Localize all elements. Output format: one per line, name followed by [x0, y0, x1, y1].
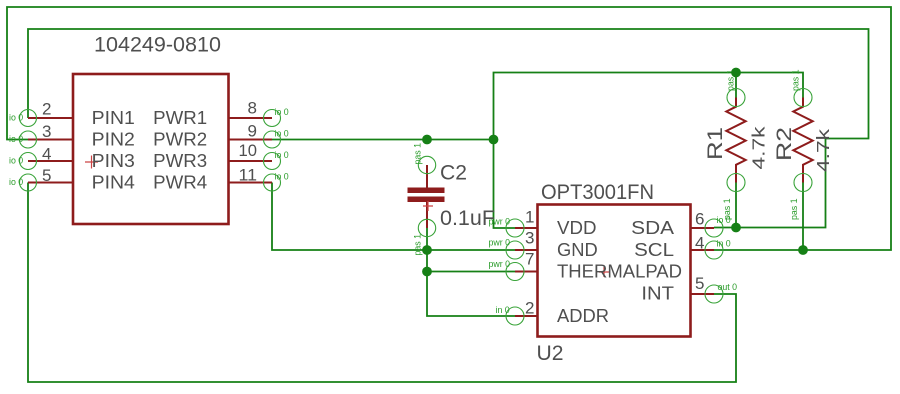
svg-text:io 0: io 0 — [275, 129, 289, 139]
svg-text:pas 1: pas 1 — [789, 198, 799, 220]
svg-text:4.7k: 4.7k — [749, 126, 769, 169]
svg-text:io 0: io 0 — [275, 150, 289, 160]
svg-text:U2: U2 — [537, 342, 564, 365]
svg-text:pwr 0: pwr 0 — [489, 217, 511, 227]
svg-text:2: 2 — [525, 298, 534, 317]
svg-text:8: 8 — [248, 99, 257, 118]
svg-text:io 0: io 0 — [9, 134, 23, 144]
svg-text:pas 1: pas 1 — [722, 198, 732, 220]
svg-text:5: 5 — [42, 166, 51, 185]
svg-text:in 0: in 0 — [717, 239, 731, 249]
svg-text:4: 4 — [695, 233, 704, 252]
svg-text:1: 1 — [525, 208, 534, 227]
svg-text:io 0: io 0 — [275, 172, 289, 182]
svg-text:pas 1: pas 1 — [413, 234, 423, 256]
svg-text:pas 1: pas 1 — [791, 69, 801, 91]
svg-text:PWR4: PWR4 — [153, 173, 207, 193]
svg-text:pwr 0: pwr 0 — [489, 238, 511, 248]
svg-text:10: 10 — [239, 141, 258, 160]
svg-text:pwr 0: pwr 0 — [489, 259, 511, 269]
svg-text:pas 1: pas 1 — [413, 143, 423, 165]
svg-text:7: 7 — [525, 250, 534, 269]
svg-text:C2: C2 — [440, 162, 467, 185]
svg-text:PIN1: PIN1 — [92, 108, 135, 128]
svg-text:SDA: SDA — [631, 218, 674, 238]
svg-text:io 0: io 0 — [9, 156, 23, 166]
svg-text:io 0: io 0 — [9, 113, 23, 123]
svg-text:PIN3: PIN3 — [92, 151, 135, 171]
svg-text:ADDR: ADDR — [557, 306, 609, 326]
svg-text:R2: R2 — [773, 127, 796, 161]
svg-text:PIN4: PIN4 — [92, 173, 135, 193]
svg-text:INT: INT — [641, 284, 674, 304]
svg-text:4.7k: 4.7k — [813, 129, 833, 172]
svg-text:104249-0810: 104249-0810 — [94, 34, 221, 57]
svg-text:9: 9 — [248, 121, 257, 140]
svg-text:PIN2: PIN2 — [92, 130, 135, 150]
svg-text:out 0: out 0 — [718, 282, 738, 292]
svg-text:0.1uF: 0.1uF — [440, 207, 495, 230]
svg-text:5: 5 — [695, 274, 704, 293]
svg-text:11: 11 — [239, 165, 258, 184]
svg-text:SCL: SCL — [634, 240, 674, 260]
svg-text:io 0: io 0 — [275, 107, 289, 117]
svg-text:OPT3001FN: OPT3001FN — [541, 181, 654, 204]
svg-text:2: 2 — [42, 100, 51, 119]
svg-text:3: 3 — [525, 229, 534, 248]
svg-text:THERMALPAD: THERMALPAD — [557, 262, 682, 282]
svg-text:PWR3: PWR3 — [153, 151, 207, 171]
svg-text:PWR1: PWR1 — [153, 108, 207, 128]
svg-text:4: 4 — [42, 145, 51, 164]
svg-text:VDD: VDD — [557, 218, 597, 238]
svg-text:GND: GND — [557, 240, 598, 260]
svg-text:in 0: in 0 — [496, 305, 510, 315]
svg-text:PWR2: PWR2 — [153, 130, 207, 150]
svg-text:3: 3 — [42, 122, 51, 141]
svg-text:R1: R1 — [704, 127, 727, 160]
svg-text:6: 6 — [695, 210, 704, 229]
svg-text:io 0: io 0 — [9, 177, 23, 187]
